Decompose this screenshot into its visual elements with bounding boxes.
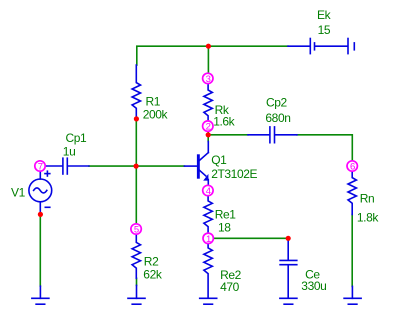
svg-text:1u: 1u xyxy=(63,145,76,159)
svg-text:Ek: Ek xyxy=(317,8,332,22)
svg-text:R2: R2 xyxy=(144,254,159,268)
svg-text:330u: 330u xyxy=(301,279,326,293)
svg-text:6: 6 xyxy=(350,162,355,173)
svg-text:62k: 62k xyxy=(143,268,163,282)
svg-text:5: 5 xyxy=(134,225,139,236)
svg-text:Cp1: Cp1 xyxy=(66,131,88,145)
svg-text:470: 470 xyxy=(220,280,240,294)
svg-text:R1: R1 xyxy=(146,94,161,108)
svg-text:1.8k: 1.8k xyxy=(357,210,379,224)
svg-text:Re1: Re1 xyxy=(215,208,237,222)
svg-text:V1: V1 xyxy=(11,185,26,199)
svg-text:2: 2 xyxy=(206,122,211,133)
svg-text:1: 1 xyxy=(206,234,211,245)
svg-text:3: 3 xyxy=(206,74,211,85)
svg-text:15: 15 xyxy=(318,23,331,37)
svg-text:200k: 200k xyxy=(143,108,169,122)
svg-text:18: 18 xyxy=(218,221,231,235)
svg-text:1.6k: 1.6k xyxy=(213,115,235,129)
svg-text:Rn: Rn xyxy=(360,191,375,205)
svg-text:7: 7 xyxy=(38,162,43,173)
svg-text:680n: 680n xyxy=(265,111,290,125)
svg-text:Q1: Q1 xyxy=(211,153,227,167)
svg-text:Cp2: Cp2 xyxy=(266,96,288,110)
svg-text:4: 4 xyxy=(206,186,211,197)
svg-text:2T3102E: 2T3102E xyxy=(211,167,257,181)
